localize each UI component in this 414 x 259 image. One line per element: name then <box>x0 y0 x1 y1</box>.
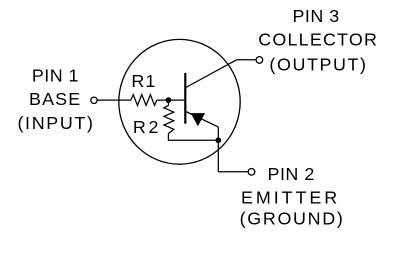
wire pin1 lead to R1 <box>97 99 131 101</box>
wire emitter down <box>217 127 219 172</box>
svg-text:COLLECTOR: COLLECTOR <box>258 29 377 49</box>
terminal pin 3 (collector output) <box>256 57 263 64</box>
wire base node down to R2 <box>167 100 169 106</box>
svg-text:(GROUND): (GROUND) <box>240 209 343 229</box>
resistor R1 <box>131 95 157 106</box>
wire collector to pin 3 terminal <box>237 59 256 61</box>
terminal pin 2 (emitter ground) <box>248 169 255 176</box>
terminal pin 1 (base input) <box>91 97 97 103</box>
svg-text:PIN 1: PIN 1 <box>32 66 79 86</box>
svg-text:(OUTPUT): (OUTPUT) <box>269 54 366 74</box>
emitter arrow <box>191 113 205 126</box>
wire emitter to pin 2 terminal <box>218 171 248 173</box>
collector line <box>186 60 237 88</box>
svg-text:(INPUT): (INPUT) <box>17 113 92 133</box>
transistor Q1 <box>185 60 236 127</box>
svg-text:PIN 3: PIN 3 <box>292 6 339 26</box>
transistor package outline circle <box>119 39 240 164</box>
wire R2 bottom to emitter node <box>168 134 218 141</box>
svg-text:R1: R1 <box>131 71 155 91</box>
svg-text:BASE: BASE <box>29 89 80 109</box>
svg-text:R2: R2 <box>133 117 159 137</box>
junction dot base node <box>166 97 172 103</box>
svg-text:PIN 2: PIN 2 <box>268 164 315 184</box>
wire R1 to base node and transistor base <box>157 99 186 101</box>
emitter line <box>186 112 219 127</box>
resistor R2 <box>164 106 174 134</box>
base bar <box>184 73 186 124</box>
junction dot emitter node <box>215 137 221 143</box>
